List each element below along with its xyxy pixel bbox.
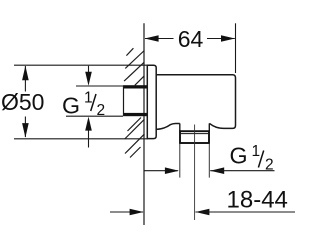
svg-text:Ø50: Ø50 [1,89,44,115]
svg-text:2: 2 [97,102,106,119]
wall surface line (also 64 left extension and 18-44 left extension) [143,23,145,225]
upper G1/2: down arrow with tail [88,66,90,80]
upper G1/2: up arrow with tail [88,125,90,148]
upper G1/2: fitting bottom extension line [66,115,123,117]
hex nut [180,131,209,143]
body outline top and right [156,75,235,129]
svg-text:G: G [62,93,80,119]
dimension O50: up arrow [22,66,29,81]
dimension O50: vertical line upper [24,66,26,92]
G1/2 wall fitting bottom thread band [123,113,147,116]
dimension 64: left arrow [145,35,159,42]
dimension 64: line [145,38,174,40]
dimension O50: bottom extension line [14,138,148,140]
wall hatching lower [125,118,145,158]
svg-text:64: 64 [178,26,204,52]
lower G1/2: dimension line left segment [144,170,178,172]
hex nut inner chamfer line [181,133,208,135]
lower G1/2: left arrow with tail [210,167,224,174]
lower G1/2: right arrow [165,167,179,174]
wall hatching upper [124,48,144,85]
svg-text:1: 1 [252,143,261,160]
escutcheon flange [147,65,156,138]
svg-text:1: 1 [84,90,93,107]
outlet extension line left [179,144,181,178]
body underside left of outlet [156,124,180,130]
dimension O50: vertical line lower [24,117,26,138]
outlet neck right side [208,123,210,131]
svg-text:2: 2 [265,157,274,174]
upper G1/2: fitting top extension line [76,85,123,87]
outlet neck left side [179,123,181,131]
dimension O50: top extension line [14,64,148,66]
dimension 64: right arrow [221,35,235,42]
dimension O50: down arrow [22,123,29,138]
svg-text:18-44: 18-44 [227,187,288,214]
G1/2 wall fitting left edge [123,86,125,117]
outlet extension line right [208,144,210,178]
G1/2 wall fitting top thread band [123,85,147,88]
dimension 64: right extension line [235,23,237,73]
svg-text:G: G [230,143,248,169]
dimension 18-44: line with outside arrows [110,211,143,213]
outlet centerline [194,125,196,221]
